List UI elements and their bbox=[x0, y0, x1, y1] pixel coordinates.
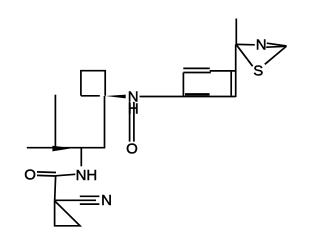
svg-text:O: O bbox=[24, 166, 36, 183]
svg-text:S: S bbox=[253, 63, 263, 80]
svg-text:NH: NH bbox=[76, 167, 98, 184]
svg-text:N: N bbox=[101, 192, 112, 209]
svg-text:O: O bbox=[126, 141, 138, 158]
svg-text:H: H bbox=[128, 101, 139, 118]
svg-text:N: N bbox=[256, 36, 267, 53]
